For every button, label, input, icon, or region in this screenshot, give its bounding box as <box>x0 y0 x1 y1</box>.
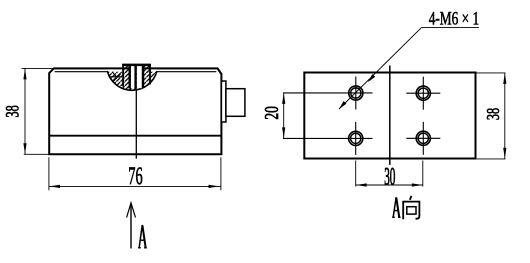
svg-text:38: 38 <box>3 105 23 117</box>
svg-text:20: 20 <box>260 106 282 120</box>
svg-text:4-M6 × 1: 4-M6 × 1 <box>429 10 479 30</box>
svg-text:30: 30 <box>384 162 395 190</box>
svg-text:76: 76 <box>128 163 142 190</box>
svg-text:38: 38 <box>485 108 504 120</box>
